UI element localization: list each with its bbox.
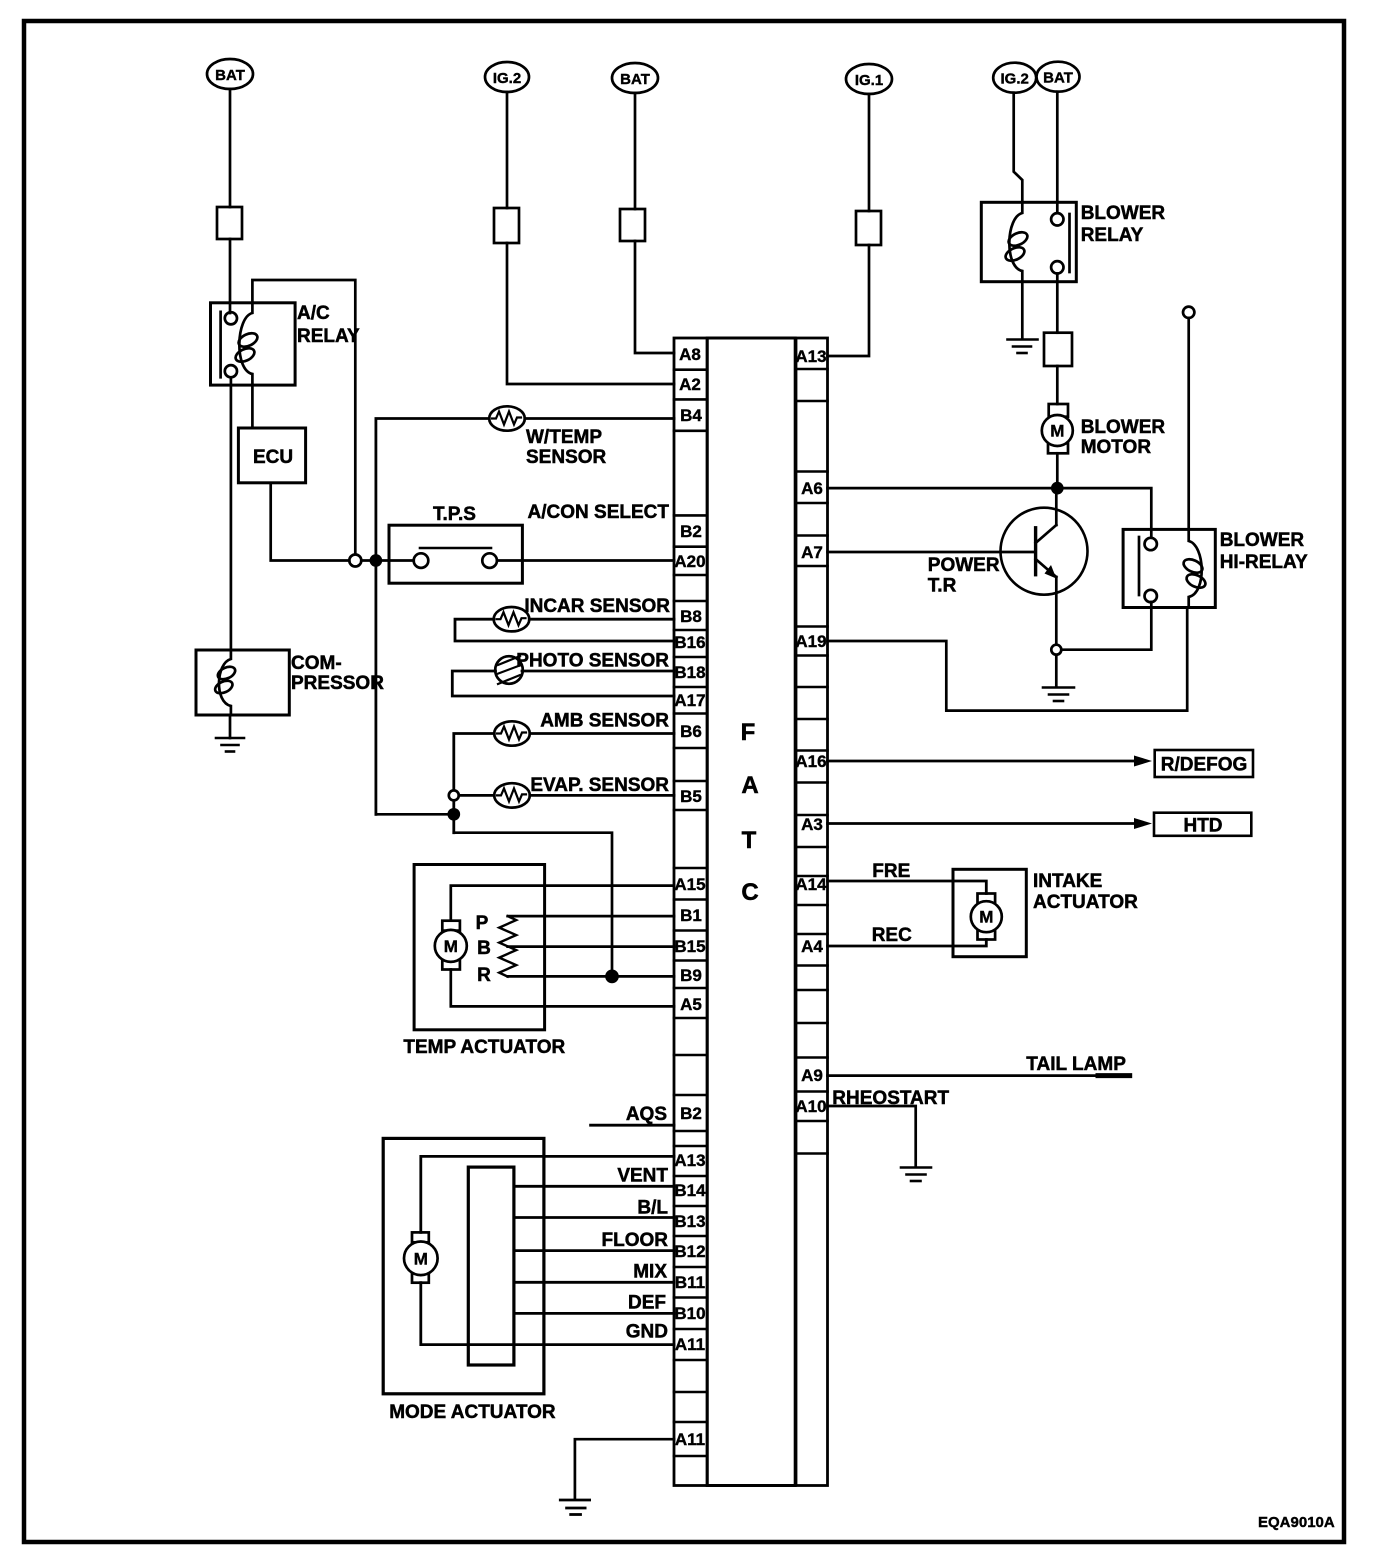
ground below A11 wire bbox=[560, 1500, 589, 1515]
svg-text:A6: A6 bbox=[801, 479, 823, 498]
svg-text:M: M bbox=[1050, 422, 1064, 441]
wire W/TEMP sensor left leg down to sensor-common line bbox=[376, 419, 489, 815]
svg-text:BAT: BAT bbox=[620, 71, 650, 88]
actuator: TEMP ACTUATOR box bbox=[403, 865, 565, 1059]
actuator: MODE ACTUATOR box bbox=[383, 1138, 556, 1423]
wire terminal to hi-relay coil bbox=[1187, 318, 1190, 529]
switch T.P.S bbox=[389, 504, 522, 583]
box HTD bbox=[1154, 813, 1251, 837]
svg-text:A15: A15 bbox=[674, 875, 705, 894]
wire W/TEMP sensor to pin B4 bbox=[525, 417, 674, 420]
svg-text:A5: A5 bbox=[680, 995, 702, 1014]
resistor: temp position sensor P-B-R bbox=[476, 913, 517, 986]
box R/DEFOG bbox=[1155, 750, 1253, 777]
wire PHOTO sensor to pin B18 bbox=[522, 670, 674, 673]
wire emitter junction to ground bbox=[1055, 655, 1058, 687]
svg-text:R: R bbox=[477, 965, 491, 986]
svg-text:A8: A8 bbox=[679, 345, 701, 364]
compressor clutch coil box bbox=[196, 650, 384, 715]
arrowhead R/DEFOG bbox=[1134, 756, 1152, 767]
node: junction dot blower motor / A6 bbox=[1052, 483, 1062, 493]
svg-text:HI-RELAY: HI-RELAY bbox=[1220, 552, 1308, 573]
wire blower relay contact to connector block bbox=[1056, 274, 1059, 333]
svg-text:B5: B5 bbox=[680, 787, 702, 806]
svg-text:INCAR SENSOR: INCAR SENSOR bbox=[524, 596, 670, 617]
wire mode motor / GND to pin A11 bbox=[421, 1283, 674, 1345]
ground below blower relay bbox=[1008, 340, 1038, 354]
wire IG.2 to blower relay coil bbox=[1014, 93, 1023, 203]
svg-text:DEF: DEF bbox=[628, 1293, 666, 1314]
svg-text:FLOOR: FLOOR bbox=[602, 1230, 669, 1251]
actuator: INTAKE ACTUATOR box bbox=[953, 869, 1138, 956]
sensor: W/TEMP SENSOR (thermistor) bbox=[489, 406, 606, 468]
svg-text:BLOWER: BLOWER bbox=[1081, 417, 1166, 438]
wire B/L to pin B13 bbox=[514, 1216, 674, 1219]
svg-text:INTAKE: INTAKE bbox=[1033, 871, 1102, 892]
svg-text:AQS: AQS bbox=[626, 1104, 667, 1125]
svg-text:BAT: BAT bbox=[1043, 70, 1073, 87]
svg-text:BLOWER: BLOWER bbox=[1220, 530, 1305, 551]
svg-text:A13: A13 bbox=[674, 1151, 705, 1170]
wire pin A7 to power TR base bbox=[828, 551, 1036, 554]
label TAIL LAMP bbox=[1026, 1054, 1129, 1076]
svg-text:M: M bbox=[414, 1249, 428, 1268]
svg-text:A14: A14 bbox=[795, 875, 827, 894]
svg-text:B9: B9 bbox=[680, 966, 702, 985]
wire IG.1 to fuse F4 bbox=[868, 94, 871, 211]
wire DEF to pin B10 bbox=[514, 1312, 674, 1315]
svg-text:B8: B8 bbox=[680, 607, 702, 626]
svg-text:SENSOR: SENSOR bbox=[526, 447, 607, 468]
wire INCAR sensor left leg loop to pin B16 bbox=[455, 619, 674, 641]
svg-text:MIX: MIX bbox=[633, 1262, 667, 1283]
svg-text:B10: B10 bbox=[674, 1304, 705, 1323]
wire pin A16 to R/DEFOG bbox=[828, 760, 1139, 763]
svg-text:EQA9010A: EQA9010A bbox=[1258, 1514, 1335, 1531]
svg-text:B6: B6 bbox=[680, 722, 702, 741]
svg-text:A11: A11 bbox=[675, 1335, 705, 1354]
svg-text:T.P.S: T.P.S bbox=[433, 504, 476, 525]
connector FATC body bbox=[707, 338, 795, 1486]
svg-text:GND: GND bbox=[626, 1322, 668, 1343]
node: junction dot sensor-common bbox=[449, 809, 459, 819]
svg-text:T: T bbox=[742, 827, 757, 854]
svg-text:A9: A9 bbox=[801, 1066, 823, 1085]
wire FLOOR to pin B12 bbox=[514, 1249, 674, 1252]
wire pin A3 to HTD bbox=[828, 822, 1139, 825]
svg-text:F: F bbox=[741, 719, 756, 746]
wire IG.2 to fuse F2 bbox=[506, 92, 509, 208]
wire AMB sensor to pin B6 bbox=[530, 732, 674, 735]
svg-text:BLOWER: BLOWER bbox=[1081, 203, 1166, 224]
sensor: INCAR SENSOR bbox=[494, 596, 671, 631]
fuse F1 bbox=[217, 207, 242, 239]
svg-text:M: M bbox=[979, 908, 993, 927]
wire MIX to pin B11 bbox=[514, 1281, 674, 1284]
wire blower motor to A6 node bbox=[1056, 453, 1059, 488]
power source IG.2 (right) bbox=[993, 63, 1036, 93]
wire AMB sensor left leg down bbox=[454, 734, 494, 833]
svg-text:B18: B18 bbox=[674, 663, 705, 682]
svg-text:MODE ACTUATOR: MODE ACTUATOR bbox=[389, 1402, 556, 1423]
svg-text:A3: A3 bbox=[801, 815, 823, 834]
svg-text:B14: B14 bbox=[674, 1181, 706, 1200]
svg-text:B13: B13 bbox=[674, 1212, 705, 1231]
wire blower relay coil to ground bbox=[1021, 282, 1024, 339]
wire pin A19 to hi-relay coil bbox=[828, 608, 1188, 711]
svg-text:B: B bbox=[477, 938, 491, 959]
svg-text:B15: B15 bbox=[674, 937, 705, 956]
svg-text:W/TEMP: W/TEMP bbox=[526, 427, 602, 448]
svg-text:B16: B16 bbox=[674, 633, 705, 652]
wire AQS to pin B2 bbox=[591, 1124, 674, 1127]
svg-text:ECU: ECU bbox=[253, 447, 293, 468]
svg-text:EVAP. SENSOR: EVAP. SENSOR bbox=[530, 775, 669, 796]
svg-text:B1: B1 bbox=[680, 906, 702, 925]
svg-text:R/DEFOG: R/DEFOG bbox=[1161, 755, 1248, 776]
node: ring junction emitter bbox=[1051, 645, 1061, 655]
svg-text:A11: A11 bbox=[675, 1430, 705, 1449]
wire BAT to blower relay contact bbox=[1056, 92, 1059, 213]
svg-text:RELAY: RELAY bbox=[297, 326, 360, 347]
power source IG.1 bbox=[846, 64, 892, 94]
wire fuse F2 to pin A2 bbox=[507, 243, 674, 384]
wire pin A10 (RHEOSTART) to ground bbox=[828, 1106, 916, 1167]
svg-text:B12: B12 bbox=[674, 1242, 705, 1261]
wire ECU to A20 line bbox=[271, 483, 350, 561]
svg-text:A: A bbox=[741, 772, 758, 799]
svg-text:RELAY: RELAY bbox=[1081, 225, 1144, 246]
sensor: EVAP. SENSOR bbox=[494, 775, 669, 808]
transistor: POWER T.R bbox=[928, 508, 1088, 597]
wire ground to pin A11 (second) bbox=[575, 1439, 674, 1499]
svg-text:A19: A19 bbox=[795, 632, 826, 651]
svg-text:T.R: T.R bbox=[928, 576, 957, 597]
contact plate (mode actuator) bbox=[468, 1167, 514, 1365]
svg-text:B4: B4 bbox=[680, 406, 702, 425]
wire mode motor to pin A13 bbox=[421, 1156, 674, 1232]
svg-text:IG.2: IG.2 bbox=[1001, 71, 1029, 88]
svg-text:A/CON SELECT: A/CON SELECT bbox=[528, 502, 670, 523]
wire A/C relay coil to ECU bbox=[251, 385, 254, 428]
svg-text:A20: A20 bbox=[674, 552, 705, 571]
svg-text:B2: B2 bbox=[680, 1104, 702, 1123]
svg-text:TEMP ACTUATOR: TEMP ACTUATOR bbox=[403, 1037, 565, 1058]
wire INCAR sensor to pin B8 bbox=[529, 618, 674, 621]
svg-text:IG.2: IG.2 bbox=[493, 70, 521, 87]
wire sensor-common to junction bbox=[376, 813, 454, 816]
fuse F4 bbox=[856, 211, 881, 245]
svg-text:A7: A7 bbox=[801, 543, 823, 562]
wire pin A9 to TAIL LAMP bbox=[828, 1074, 1130, 1077]
svg-text:A2: A2 bbox=[679, 375, 701, 394]
svg-text:A/C: A/C bbox=[297, 303, 330, 324]
wire VENT to pin B14 bbox=[514, 1185, 674, 1188]
svg-text:AMB SENSOR: AMB SENSOR bbox=[540, 711, 669, 732]
wire junction down to B9 line bbox=[454, 833, 612, 977]
ground below RHEOSTART wire bbox=[901, 1168, 931, 1182]
wire node to T.P.S bbox=[361, 559, 413, 562]
sensor: AMB SENSOR bbox=[494, 711, 669, 746]
power source BAT (center) bbox=[612, 63, 658, 93]
motor M (mode actuator) bbox=[404, 1232, 438, 1282]
relay: BLOWER HI-RELAY bbox=[1123, 529, 1308, 607]
svg-text:REC: REC bbox=[872, 925, 912, 946]
wire R terminal to pin B9 bbox=[508, 975, 674, 978]
svg-text:M: M bbox=[444, 937, 458, 956]
svg-text:A17: A17 bbox=[674, 691, 705, 710]
svg-text:VENT: VENT bbox=[617, 1166, 668, 1187]
wire T.P.S to pin A20 bbox=[497, 559, 674, 562]
svg-text:P: P bbox=[476, 913, 489, 934]
ECU box bbox=[238, 428, 305, 483]
wire A/C relay coil loop to node on A20 line bbox=[252, 280, 355, 555]
wire connector block to blower motor bbox=[1056, 366, 1059, 404]
svg-text:A4: A4 bbox=[801, 937, 823, 956]
wire P terminal to pin B1 bbox=[508, 915, 674, 918]
svg-text:TAIL LAMP: TAIL LAMP bbox=[1026, 1054, 1126, 1075]
svg-text:A16: A16 bbox=[795, 752, 826, 771]
svg-text:A13: A13 bbox=[795, 347, 826, 366]
svg-text:PHOTO SENSOR: PHOTO SENSOR bbox=[516, 651, 669, 672]
node: ring junction EVAP leg bbox=[449, 790, 459, 800]
wire pin A14 (FRE) to intake actuator bbox=[828, 881, 987, 894]
connector block (blower) bbox=[1044, 333, 1072, 366]
ground below compressor bbox=[216, 715, 244, 752]
wire power TR emitter down to junction bbox=[1055, 577, 1058, 645]
svg-text:POWER: POWER bbox=[928, 555, 1000, 576]
connector right pin column bbox=[796, 338, 828, 1486]
fuse F3 bbox=[620, 209, 645, 241]
wire PHOTO sensor left leg loop to pin A17 bbox=[452, 671, 674, 696]
wire temp motor to pin A15 bbox=[451, 886, 674, 921]
ground below power TR bbox=[1043, 688, 1074, 702]
wire B terminal to pin B15 bbox=[508, 945, 674, 948]
motor M (intake actuator) bbox=[971, 894, 1002, 940]
motor M (temp actuator) bbox=[435, 921, 467, 970]
power source BAT (right) bbox=[1037, 62, 1080, 92]
wire power TR collector to A6 node bbox=[1055, 488, 1058, 525]
svg-text:PRESSOR: PRESSOR bbox=[291, 673, 384, 694]
connector left pin column bbox=[674, 338, 707, 1486]
power source IG.2 (left) bbox=[485, 62, 529, 92]
relay: BLOWER RELAY bbox=[981, 202, 1165, 281]
svg-text:B/L: B/L bbox=[637, 1198, 668, 1219]
svg-text:COM-: COM- bbox=[291, 653, 342, 674]
svg-text:C: C bbox=[741, 879, 758, 906]
node: junction dot W/TEMP vertical crosses A20 wire bbox=[371, 556, 381, 566]
wire emitter junction to blower hi-relay contact bbox=[1061, 602, 1151, 650]
svg-text:A10: A10 bbox=[795, 1097, 826, 1116]
wire EVAP sensor to pin B5 bbox=[530, 794, 674, 797]
relay: A/C RELAY bbox=[211, 303, 360, 385]
wire fuse F1 to A/C relay bbox=[229, 239, 232, 313]
wire fuse F3 to pin A8 bbox=[635, 241, 674, 353]
svg-text:MOTOR: MOTOR bbox=[1081, 437, 1152, 458]
svg-text:IG.1: IG.1 bbox=[855, 72, 883, 89]
motor M: BLOWER MOTOR bbox=[1042, 404, 1166, 458]
wire temp motor to pin A5 bbox=[451, 970, 674, 1007]
svg-text:FRE: FRE bbox=[872, 861, 910, 882]
sensor: PHOTO SENSOR bbox=[495, 651, 669, 685]
node: junction dot on B9 wire bbox=[607, 971, 618, 982]
wire BAT to fuse F3 bbox=[634, 93, 637, 209]
wire EVAP sensor left leg bbox=[459, 794, 494, 797]
svg-text:B2: B2 bbox=[680, 522, 702, 541]
svg-text:B11: B11 bbox=[675, 1273, 705, 1292]
node: open terminal circle (hi-relay feed) bbox=[1183, 307, 1194, 318]
wire pin A6 to blower hi-relay contact bbox=[828, 488, 1152, 537]
arrowhead HTD bbox=[1134, 818, 1152, 829]
svg-text:ACTUATOR: ACTUATOR bbox=[1033, 892, 1138, 913]
svg-text:BAT: BAT bbox=[215, 67, 245, 84]
svg-text:HTD: HTD bbox=[1183, 816, 1222, 837]
node: open junction on A20 wire bbox=[349, 555, 361, 567]
wire fuse F4 to pin A13 bbox=[828, 245, 870, 356]
fuse F2 bbox=[494, 208, 519, 243]
power source BAT (left) bbox=[207, 59, 253, 89]
wire pin A4 (REC) to intake actuator bbox=[828, 940, 987, 947]
svg-text:RHEOSTART: RHEOSTART bbox=[832, 1088, 949, 1109]
wire A/C relay contact to compressor bbox=[230, 377, 233, 650]
wire BAT to fuse F1 bbox=[229, 89, 232, 207]
